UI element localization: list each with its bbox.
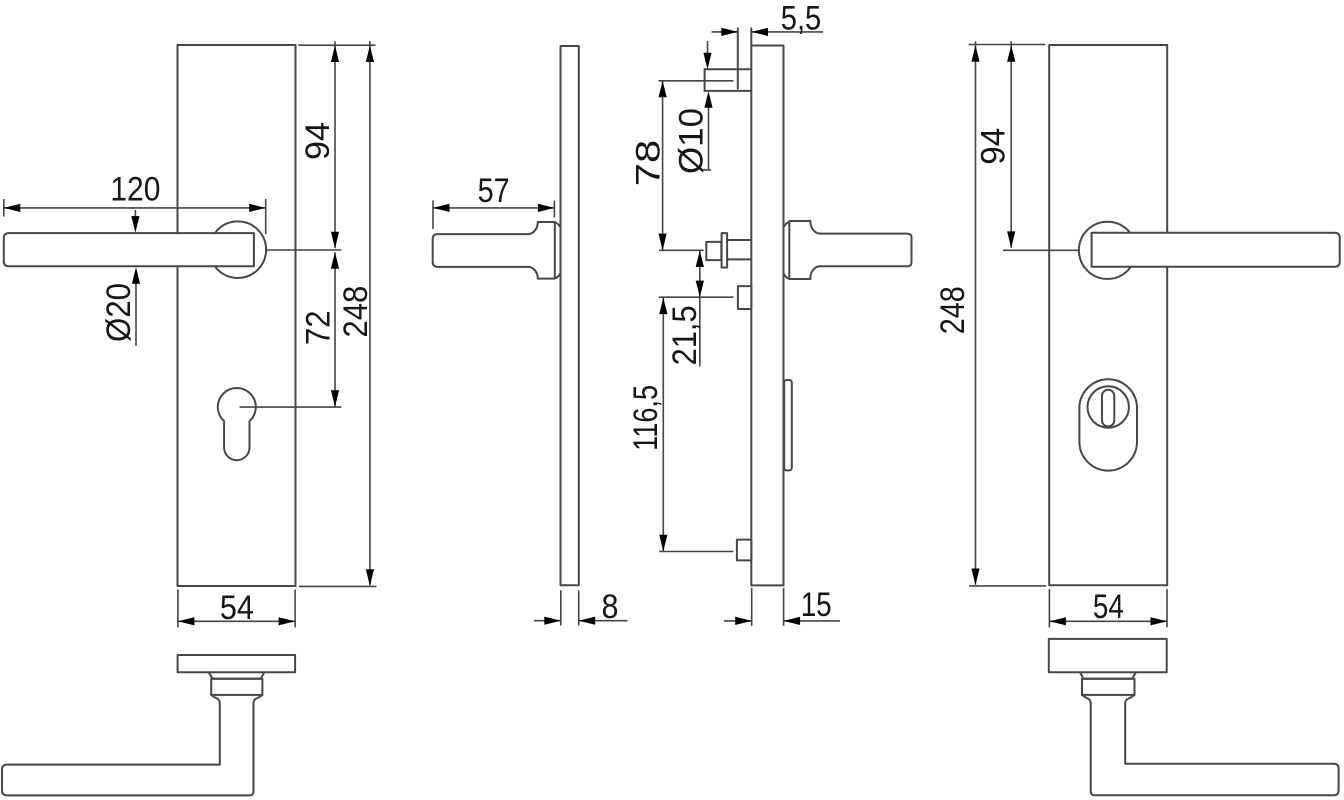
dimension dia20 [134,210,136,218]
dimension 57 [432,201,434,230]
dimension 54 view1 [177,590,179,628]
dimension 5,5 [712,31,738,33]
neck fillets view2 [528,222,538,234]
svg-text:Ø20: Ø20 [100,283,138,342]
rose plate top view left [178,655,296,672]
svg-text:94: 94 [299,122,337,160]
dimension 72 view1 [334,252,336,407]
collar top view right [1082,679,1135,695]
dimension 94 view1 [334,41,336,248]
shaft and grip top view right [1082,695,1339,795]
dimension 21,5 [659,296,734,298]
cylinder guard view4 [1079,379,1137,470]
svg-text:5,5: 5,5 [781,0,822,37]
shaft and grip top view left [2,695,262,796]
backplate side view2 [561,46,579,585]
dimension 54 view4 [1048,589,1050,627]
washer chamfers view2 [555,222,561,227]
euro profile keyhole view1 [218,388,256,460]
svg-text:54: 54 [1093,588,1124,626]
cylinder cover side view3 [784,380,792,470]
dimension 15 [751,588,753,626]
backplate view1 [178,45,296,586]
lower hook view3 [737,540,751,561]
svg-text:15: 15 [801,586,832,624]
upper hook view3 [738,286,751,309]
dimension 94 view4 [969,44,1046,46]
rose plate top view right [1049,639,1167,672]
collar top view left [211,679,262,695]
leader cylinder axis view1 [240,406,342,408]
svg-text:78: 78 [630,140,668,187]
dimension 248 view4 [969,585,1046,587]
dimension 248 view1 [369,41,371,585]
dimension 78 [659,80,734,82]
lever grip view1 [4,233,254,266]
svg-text:8: 8 [602,588,619,626]
leader handle axis view1 [266,249,341,251]
extension lines right of view1 [298,44,375,46]
dimension 116,5 [659,551,733,553]
svg-text:54: 54 [220,589,254,627]
rose circle view1 [210,221,267,278]
dimension 8 [560,590,562,625]
collar view2 [538,222,555,279]
svg-text:72: 72 [300,310,338,345]
lever grip side view2 [433,234,528,267]
dimension 120 [4,207,266,209]
top fixing bolt view3 [737,28,739,88]
svg-text:248: 248 [337,286,375,338]
key slot view4 [1102,390,1114,427]
washer top view right [1080,672,1136,679]
rose circle view4 [1079,222,1136,279]
backplate side view3 [751,46,783,586]
svg-text:21,5: 21,5 [666,305,704,365]
svg-text:57: 57 [478,172,510,210]
leader handle axis view4 [1003,249,1079,251]
spindle with nut view3 [706,242,721,260]
svg-text:120: 120 [110,171,160,209]
washer top view left [209,672,264,678]
lever grip view3 [820,234,911,267]
dimension dia10 [707,41,709,54]
handle neck view3 [784,222,790,227]
guard inner circle view4 [1088,386,1129,427]
svg-text:248: 248 [934,286,972,334]
svg-text:Ø10: Ø10 [672,108,710,174]
svg-text:94: 94 [975,128,1013,165]
dia10 sleeve view3 [705,68,752,70]
lever grip view4 [1092,233,1340,267]
svg-text:116,5: 116,5 [627,385,665,451]
backplate view4 [1049,45,1167,585]
